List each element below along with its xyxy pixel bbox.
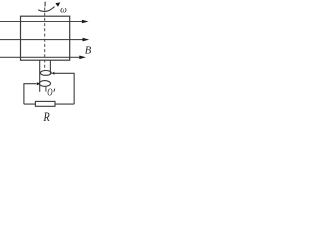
svg-text:O: O [47, 87, 53, 98]
rotation axis top tick [44, 2, 46, 7]
rotation arrow (curved) [38, 2, 60, 11]
rotation axis (dashed) [44, 8, 46, 71]
wire right (brush to bottom right corner) [54, 73, 74, 104]
svg-text:R: R [43, 110, 50, 124]
svg-text:ω: ω [60, 6, 67, 16]
field line B1 (top) [0, 20, 89, 24]
wire left (brush to bottom left corner) [24, 84, 37, 104]
brush left (on lower ring) [37, 82, 40, 85]
slip ring upper [40, 71, 51, 76]
slip ring lower [39, 81, 50, 87]
coil (rectangular loop) [21, 16, 70, 60]
brush right (on upper ring) [52, 72, 55, 75]
coil lead right (to upper slip ring) [49, 60, 51, 74]
field line B2 (middle) [0, 38, 89, 42]
wire bottom [24, 103, 74, 105]
rotation axis bottom tick [45, 87, 47, 92]
svg-text:B: B [85, 45, 92, 56]
field line B3 (bottom) [0, 56, 86, 60]
resistor R box [35, 101, 55, 106]
label O prime (axis end) [47, 87, 54, 98]
coil lead left (to lower slip ring) [39, 60, 41, 92]
